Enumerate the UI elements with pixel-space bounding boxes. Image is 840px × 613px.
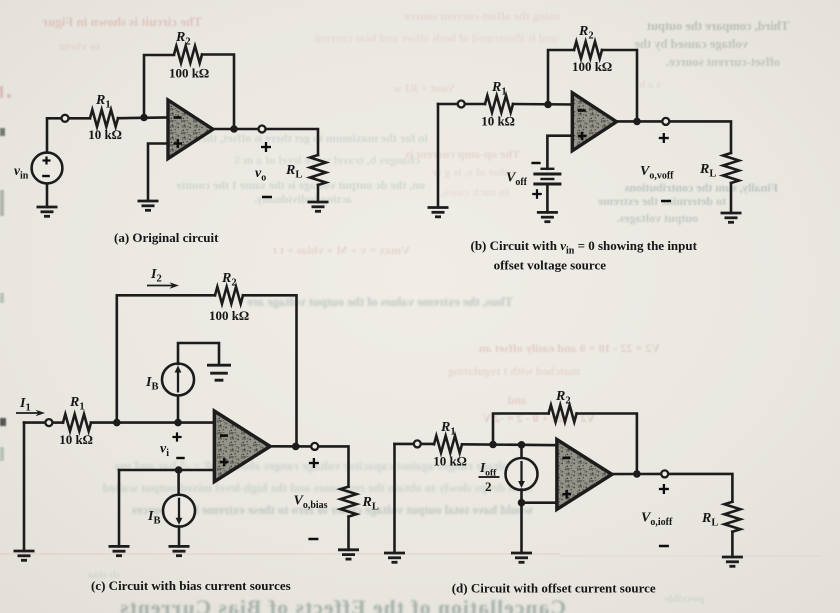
- svg-text:to vbrin: to vbrin: [59, 39, 100, 53]
- svg-text:t a h: t a h: [639, 79, 660, 91]
- svg-text:Third, compare the output: Third, compare the output: [646, 19, 789, 33]
- svg-text:10 kΩ: 10 kΩ: [59, 432, 92, 447]
- svg-text:The op-amp current is: The op-amp current is: [405, 147, 520, 161]
- svg-text:100 kΩ: 100 kΩ: [209, 308, 249, 323]
- svg-text:and is illustrated of both off: and is illustrated of both offset and bi…: [314, 31, 558, 45]
- svg-text:using the offset-current sourc: using the offset-current source: [403, 9, 560, 23]
- svg-text:100 kΩ: 100 kΩ: [572, 59, 612, 74]
- svg-text:offset voltage source: offset voltage source: [494, 257, 607, 272]
- svg-text:10 kΩ: 10 kΩ: [433, 454, 466, 469]
- svg-text:10 kΩ: 10 kΩ: [88, 127, 121, 142]
- svg-text:output voltages.: output voltages.: [617, 211, 698, 225]
- svg-text:matched with t regulating: matched with t regulating: [448, 364, 580, 378]
- svg-text:Vout = RI w: Vout = RI w: [393, 81, 455, 95]
- svg-text:and: and: [507, 393, 527, 407]
- svg-text:Thus, the extreme values of th: Thus, the extreme values of the output v…: [247, 295, 513, 309]
- svg-text:poxxible: poxxible: [664, 593, 704, 605]
- svg-text:changes b, travel wave level o: changes b, travel wave level of a m 5: [234, 153, 420, 167]
- svg-text:offset-current source.: offset-current source.: [666, 55, 780, 69]
- svg-text:then drops slowly to obtain th: then drops slowly to obtain the response…: [103, 481, 532, 495]
- svg-text:10 kΩ: 10 kΩ: [481, 114, 514, 129]
- svg-text:The circuit is shown in Figur: The circuit is shown in Figur: [42, 14, 202, 29]
- svg-text:Vmax = v + M + vbias + t t: Vmax = v + M + vbias + t t: [273, 243, 410, 257]
- svg-text:In such cases,: In such cases,: [440, 185, 510, 199]
- svg-text:2: 2: [485, 479, 492, 494]
- svg-text:Cancellation of the Effects of: Cancellation of the Effects of Bias Curr…: [119, 596, 566, 613]
- svg-text:value of v, is g tr: value of v, is g tr: [431, 165, 516, 179]
- svg-text:(a) Original circuit: (a) Original circuit: [114, 230, 219, 245]
- svg-text:Finally, sum the contributions: Finally, sum the contributions: [624, 181, 778, 195]
- svg-text:100 kΩ: 100 kΩ: [169, 66, 209, 81]
- svg-text:(d) Circuit with offset curren: (d) Circuit with offset current source: [452, 581, 656, 596]
- svg-text:voltage caused by the: voltage caused by the: [634, 37, 748, 51]
- svg-text:(c) Circuit with bias current: (c) Circuit with bias current sources: [91, 578, 291, 593]
- svg-text:V2 = 22 - 10 = 0 and easily o: V2 = 22 - 10 = 0 and easily offset an: [479, 341, 660, 355]
- svg-text:acting individually.: acting individually.: [254, 192, 352, 206]
